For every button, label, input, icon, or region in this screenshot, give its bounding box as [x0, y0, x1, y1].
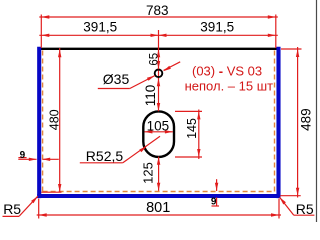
- svg-text:105: 105: [147, 118, 170, 133]
- svg-text:9: 9: [20, 150, 26, 161]
- panel right edge (blue edging): [276, 47, 280, 198]
- dimension 9 bottom: [211, 179, 219, 207]
- svg-text:R5: R5: [296, 201, 314, 217]
- hole circle D35: [155, 70, 163, 78]
- label D35 with leader: [98, 71, 155, 89]
- panel top edge: [38, 48, 280, 50]
- centerline through circle: [158, 68, 160, 79]
- dimension 65 (top edge to circle): [149, 49, 161, 70]
- svg-text:110: 110: [143, 85, 158, 107]
- page border right: [316, 0, 318, 222]
- edging offset dashed line left: [42, 51, 44, 192]
- label R52,5 with leader: [80, 136, 160, 164]
- dimension 489 right: [280, 47, 313, 198]
- obround hole 105x145: [143, 111, 174, 157]
- svg-text:Ø35: Ø35: [103, 71, 130, 87]
- svg-text:480: 480: [47, 109, 61, 130]
- dimension 125 (obround to bottom dashed line): [140, 157, 160, 191]
- svg-text:125: 125: [140, 162, 155, 184]
- panel left edge (blue edging): [37, 47, 41, 198]
- edging offset dashed line bottom: [43, 191, 275, 193]
- label R5 bottom-left with leader: [3, 196, 38, 217]
- dimension 105 (obround width): [144, 118, 173, 133]
- svg-text:R52,5: R52,5: [86, 148, 124, 164]
- label R5 bottom-right with leader: [280, 197, 315, 217]
- dimension 9 left: [18, 150, 59, 161]
- svg-text:145: 145: [185, 118, 199, 139]
- annotation text nepol - 15 sht: [185, 78, 274, 93]
- svg-text:65: 65: [149, 53, 161, 66]
- svg-text:непол. – 15 шт: непол. – 15 шт: [185, 78, 274, 93]
- panel bottom edge (blue edging): [37, 194, 280, 198]
- dimension 391,5 left: [39, 20, 158, 49]
- dimension 480 left: [41, 48, 61, 192]
- svg-text:(03) - VS 03: (03) - VS 03: [192, 63, 262, 78]
- svg-text:R5: R5: [3, 201, 21, 217]
- svg-text:391,5: 391,5: [83, 20, 117, 35]
- dimension 110 (circle to obround): [143, 78, 160, 111]
- svg-text:9: 9: [211, 197, 217, 208]
- edging offset dashed line right: [274, 51, 276, 192]
- dimension 783: [39, 3, 277, 48]
- dimension 801 bottom: [37, 199, 281, 219]
- dimension 391,5 right: [159, 20, 278, 38]
- annotation text (03) - VS 03: [192, 63, 262, 78]
- svg-text:801: 801: [146, 200, 170, 216]
- annotation leader to circle: [163, 62, 180, 71]
- dimension 145 (obround height): [175, 110, 202, 160]
- svg-text:391,5: 391,5: [200, 20, 234, 35]
- svg-text:783: 783: [146, 3, 169, 18]
- svg-text:489: 489: [298, 108, 313, 131]
